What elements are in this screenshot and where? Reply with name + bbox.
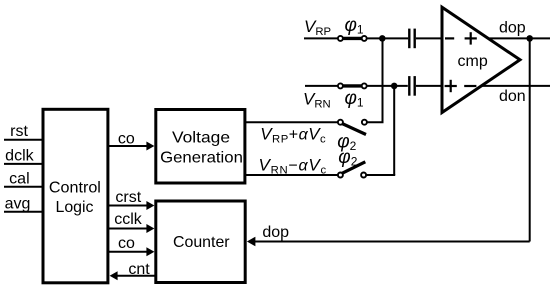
wire vertical VRP junction to phi2 switch xyxy=(382,38,384,122)
wire VRP input xyxy=(304,37,338,39)
svg-text:dclk: dclk xyxy=(5,147,34,164)
switch phi1 bottom: left contact xyxy=(338,83,343,88)
capacitor C1 right plate xyxy=(414,29,416,49)
op-amp cmp triangle xyxy=(442,7,520,112)
capacitor C2 left plate xyxy=(408,76,410,96)
switch phi2 bottom: blade xyxy=(342,162,365,173)
wire don output xyxy=(482,85,550,87)
svg-text:VRN−αVc: VRN−αVc xyxy=(259,156,327,177)
svg-text:Generation: Generation xyxy=(160,149,243,166)
svg-text:co: co xyxy=(118,130,135,147)
svg-text:don: don xyxy=(499,88,526,105)
cmp bottom input minus xyxy=(464,85,476,87)
wire rst input xyxy=(4,139,43,141)
wire phi2 bottom to vertical xyxy=(366,174,395,176)
wire cal input xyxy=(4,186,43,188)
wire capacitor C1 to comparator xyxy=(416,37,443,39)
svg-text:Control: Control xyxy=(49,179,101,196)
cmp top input plus xyxy=(465,37,477,39)
wire dclk input xyxy=(4,163,43,165)
wire cclk xyxy=(108,228,147,230)
arrowhead co Counter xyxy=(146,247,154,256)
svg-text:Logic: Logic xyxy=(56,199,94,216)
wire VRP+aVc output xyxy=(245,121,338,123)
arrowhead co xyxy=(146,142,154,151)
switch phi2 top: left contact xyxy=(338,120,343,125)
junction node on VRN xyxy=(391,83,398,90)
switch phi1 bottom: bar xyxy=(342,84,363,87)
wire vertical VRN junction to phi2 switch xyxy=(393,86,395,175)
svg-text:cmp: cmp xyxy=(458,53,488,70)
arrowhead cnt xyxy=(110,271,118,280)
cmp top input minus xyxy=(445,37,454,39)
svg-text:dop: dop xyxy=(499,19,526,36)
switch phi1 top: left contact xyxy=(338,36,343,41)
switch phi1 top: bar xyxy=(342,37,363,40)
wire VRN-aVc output xyxy=(245,174,338,176)
capacitor C1 left plate xyxy=(408,29,410,49)
svg-text:crst: crst xyxy=(115,189,141,206)
svg-text:cnt: cnt xyxy=(128,261,150,278)
svg-text:Counter: Counter xyxy=(173,234,230,251)
junction node dop xyxy=(526,35,533,42)
switch phi2 top: right contact xyxy=(362,120,367,125)
arrowhead dop feedback xyxy=(247,237,256,247)
wire capacitor C2 to comparator xyxy=(416,85,443,87)
block Control Logic xyxy=(43,109,108,282)
arrowhead crst xyxy=(146,201,154,210)
block Voltage Generation xyxy=(156,110,245,184)
wire phi2 top to vertical xyxy=(367,121,384,123)
svg-text:cal: cal xyxy=(9,170,29,187)
wire crst xyxy=(108,205,147,207)
junction node on VRP xyxy=(379,35,386,42)
block Counter xyxy=(156,201,245,283)
cmp bottom input plus xyxy=(445,85,457,87)
switch phi1 top: right contact xyxy=(362,36,367,41)
wire co to Counter xyxy=(108,251,147,253)
wire VRN input xyxy=(305,85,338,87)
wire dop output xyxy=(489,37,550,39)
switch phi2 bottom: left contact xyxy=(338,173,343,178)
svg-text:cclk: cclk xyxy=(114,211,143,228)
wire VRP to capacitor xyxy=(367,37,409,39)
wire dop feedback vertical xyxy=(529,38,531,241)
svg-text:rst: rst xyxy=(10,123,28,140)
arrowhead cclk xyxy=(146,224,154,233)
svg-text:VRP+αVc: VRP+αVc xyxy=(260,124,326,145)
svg-text:dop: dop xyxy=(262,224,289,241)
wire cnt feedback to Control Logic xyxy=(117,275,156,277)
wire dop feedback horizontal xyxy=(253,241,530,243)
svg-text:co: co xyxy=(118,235,135,252)
wire co to Voltage Generation xyxy=(108,145,147,147)
svg-text:Voltage: Voltage xyxy=(172,129,230,146)
switch phi2 top: blade xyxy=(342,124,366,135)
wire VRN to capacitor xyxy=(367,85,408,87)
switch phi1 bottom: right contact xyxy=(362,83,367,88)
wire avg input xyxy=(4,211,43,213)
capacitor C2 right plate xyxy=(414,76,416,96)
svg-text:avg: avg xyxy=(5,195,31,212)
switch phi2 bottom: right contact xyxy=(361,173,366,178)
